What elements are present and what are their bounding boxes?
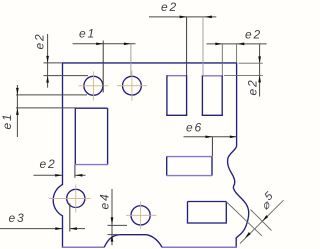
part outline main contour <box>53 63 249 247</box>
circle C1 <box>84 76 103 95</box>
arrow right to C2 ext <box>124 42 131 45</box>
svg-text:e2: e2 <box>40 157 57 171</box>
extension line vertical at slot B left edge <box>202 17 204 76</box>
arrow left to C3 ext line <box>70 227 77 230</box>
extension line A1 from bottom-right rect corner <box>227 202 262 236</box>
svg-text:e1: e1 <box>79 27 96 41</box>
arrow right to part left edge <box>55 227 62 230</box>
bottom edge left segment (thin light) <box>62 246 104 248</box>
centerline cross C4 <box>126 202 157 230</box>
dimension e2 middle-left: horizontal dim line segments <box>34 157 86 178</box>
svg-text:e2: e2 <box>161 0 178 14</box>
arrow right to C1 right tangent ext <box>96 42 103 45</box>
dimension e1 left: vertical dim line <box>0 85 87 137</box>
extension line vertical from C3 lower-left edge <box>69 204 71 232</box>
arrow down to part top edge <box>46 56 49 63</box>
arrow right to slot B right ext <box>215 43 222 46</box>
middle right rectangle slot <box>166 157 212 176</box>
arrow down to part top edge ext <box>258 56 261 63</box>
left slot rectangle <box>75 108 108 164</box>
svg-text:e3: e3 <box>9 211 26 225</box>
arrow left to part right edge ext <box>237 43 244 46</box>
extension line vertical at slot A right edge <box>186 17 188 76</box>
dimension e2 right side: vertical dim line <box>224 44 263 96</box>
extension line at C4 bottom tangent <box>108 224 128 226</box>
extension line vertical above part corner <box>236 44 238 62</box>
arrow left to slot B left ext <box>205 16 212 19</box>
extension line vertical at slot B right edge <box>221 44 223 76</box>
arrow up to slot top level <box>16 108 19 115</box>
dimension e3 bottom-left: horizontal dim line segments <box>0 204 85 232</box>
extension line vertical at mid rect right edge <box>211 137 213 156</box>
bottom edge right segment (thin light) <box>162 246 237 248</box>
extension line at left slot top level <box>16 107 76 109</box>
extension line at circle C1 top tangent <box>44 75 89 77</box>
svg-text:e2: e2 <box>246 79 260 96</box>
arrow down to C4 bottom tangent ext <box>111 217 114 225</box>
dimension e2 top-right: horizontal dim line <box>207 28 267 76</box>
arrow left to slot left ext <box>75 174 82 177</box>
dimension d5 diagonal: dim line B <box>227 189 284 244</box>
dimension e2 left-top: vertical dim line <box>33 33 89 88</box>
dimension e4 bottom-middle: vertical dim line <box>97 189 127 245</box>
arrow on B lower (tip down-left) <box>245 232 251 238</box>
centerline cross C1 <box>79 72 109 101</box>
extension line at C1 bottom tangent <box>16 94 87 96</box>
arrow on B upper (tip down-left at A2 crossing) <box>262 215 268 221</box>
extension line at slot B top level <box>224 75 263 77</box>
arrow up to dome flat top ext <box>111 235 114 242</box>
bottom dome bump <box>104 235 162 248</box>
arrow down to C1 bottom tangent <box>16 88 19 95</box>
extension line at dome flat top level <box>108 234 121 236</box>
extension line A2 <box>251 210 272 231</box>
arrow right to part left edge <box>55 174 62 177</box>
extension line vertical below left slot <box>74 165 76 178</box>
arrow up to slot B top ext <box>258 75 261 82</box>
extension line at part top edge level <box>44 62 62 64</box>
dimension e6 middle: horizontal dim line <box>184 121 237 157</box>
svg-text:e6: e6 <box>186 121 203 135</box>
svg-text:e2: e2 <box>33 33 47 50</box>
extension line vertical at C2 <box>130 44 132 76</box>
circle C2 <box>122 76 141 95</box>
extension line at part top edge level <box>239 62 263 64</box>
slot A (top right first vertical slot) <box>166 75 187 115</box>
circle C4 <box>131 206 150 225</box>
slot B (top right second vertical slot) <box>202 75 223 115</box>
dimension e2 top-middle: horizontal dim line <box>149 0 216 76</box>
centerline cross C3 <box>49 185 91 213</box>
arrow right to slot A right ext <box>180 16 187 19</box>
circle C3 <box>67 189 85 207</box>
svg-text:e1: e1 <box>0 113 14 130</box>
extension line vertical at C1 right tangent <box>102 41 104 93</box>
arrow right to part right edge <box>230 135 237 138</box>
svg-text:e2: e2 <box>245 28 262 42</box>
arrow up to circle C1 top tangent line <box>46 76 49 83</box>
arrow right to mid rect right ext <box>205 135 212 138</box>
dimension e1 top: horizontal dim line <box>73 27 136 93</box>
bottom right rectangle slot <box>187 202 227 224</box>
svg-text:e4: e4 <box>97 193 111 210</box>
centerline cross C2 <box>117 71 147 101</box>
